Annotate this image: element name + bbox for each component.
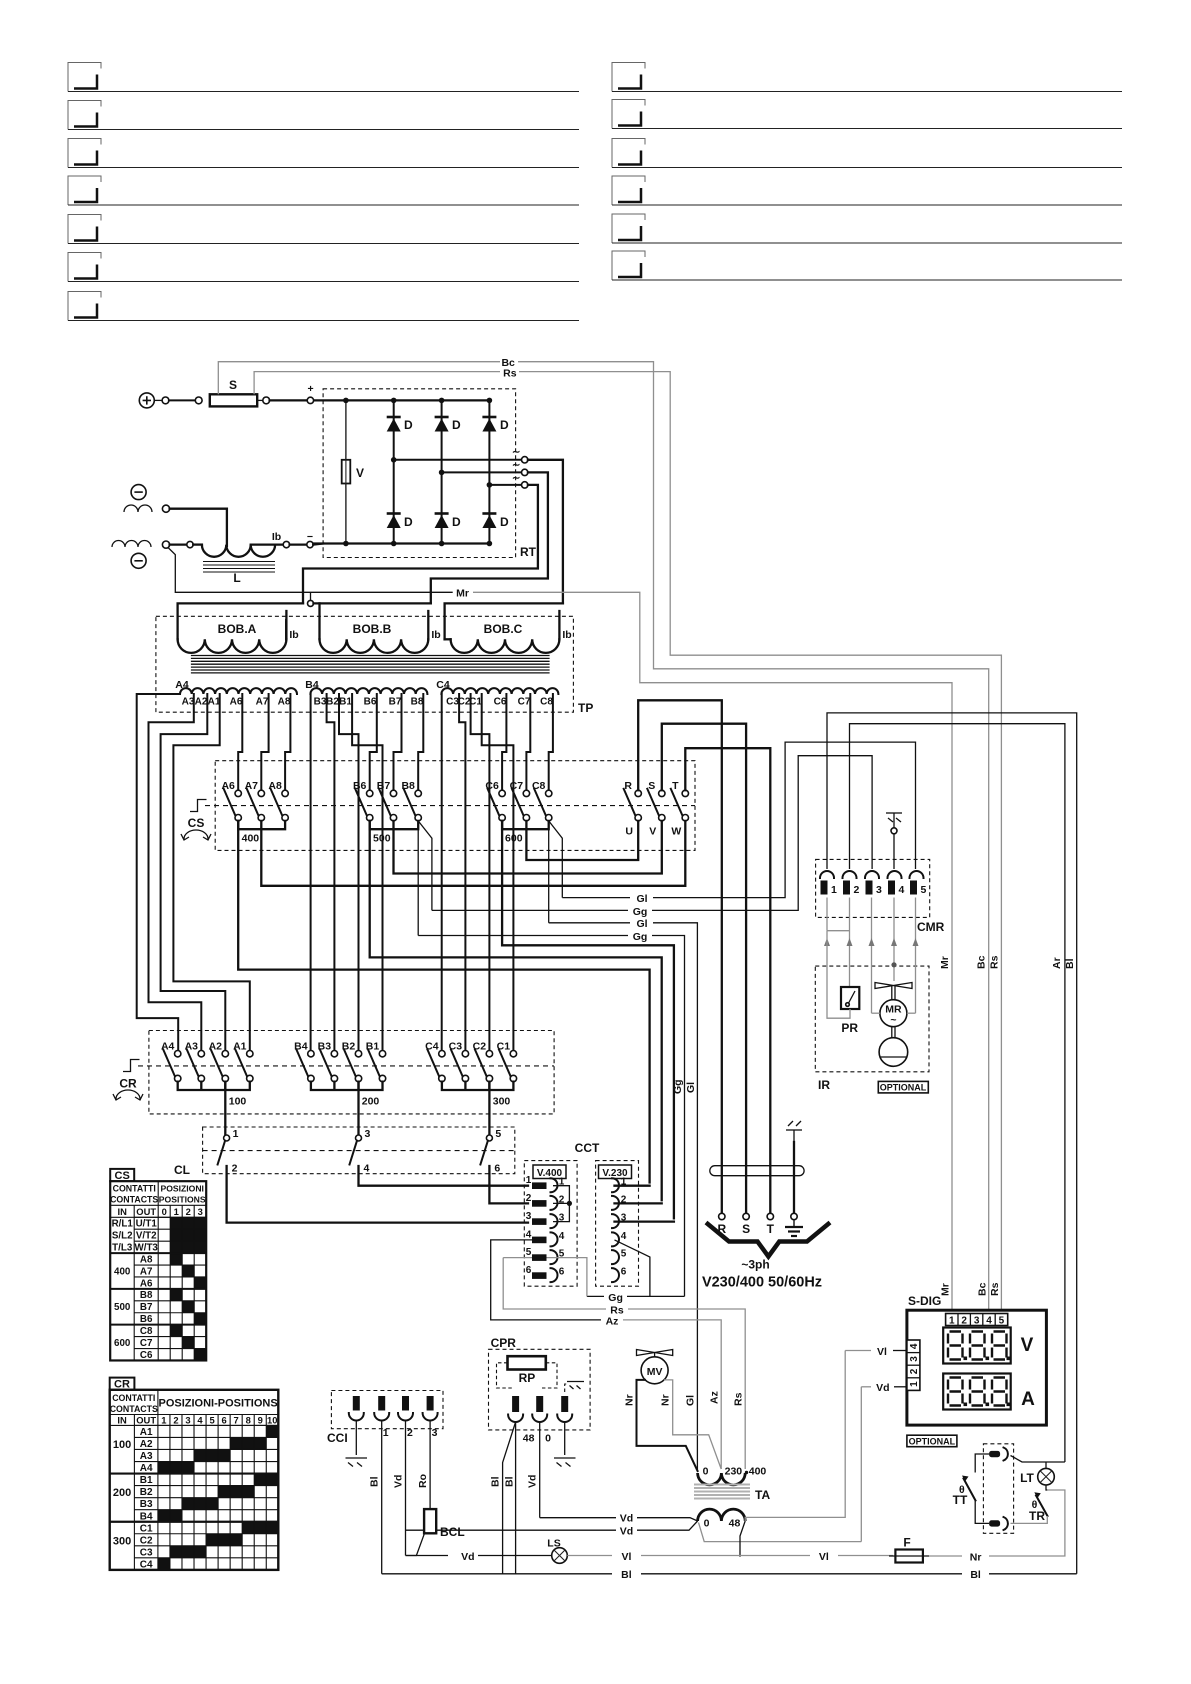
OPTIONAL box bbox=[878, 1081, 928, 1093]
wire A6 output to V.230 pin1 bbox=[238, 821, 649, 1183]
wire V400 pin4 to Az to TA 230 bbox=[491, 1240, 601, 1320]
wire ~1 bbox=[394, 459, 522, 461]
svg-text:Bl: Bl bbox=[1064, 958, 1076, 969]
svg-text:Vd: Vd bbox=[876, 1382, 889, 1394]
node bbox=[162, 541, 169, 548]
svg-text:Mr: Mr bbox=[940, 1283, 952, 1296]
svg-text:R: R bbox=[624, 780, 632, 792]
wire Bc sense bbox=[218, 362, 500, 395]
wire BCL bottom slant bbox=[406, 1533, 425, 1555]
legend line bbox=[68, 292, 101, 321]
svg-text:Bl: Bl bbox=[621, 1569, 632, 1581]
bracket 600 group bbox=[502, 821, 549, 829]
diode D top row 3 bbox=[482, 417, 509, 432]
primary coil BOB.A bbox=[178, 603, 303, 653]
CCI pin 2 bbox=[374, 1396, 389, 1439]
svg-text:C8: C8 bbox=[140, 1326, 153, 1337]
svg-text:A1: A1 bbox=[140, 1427, 153, 1438]
TP dashed box bbox=[156, 616, 574, 712]
svg-text:RT: RT bbox=[520, 545, 537, 559]
CPR pin 3 bbox=[557, 1396, 572, 1422]
svg-text:+: + bbox=[308, 383, 314, 395]
svg-text:CL: CL bbox=[174, 1163, 190, 1177]
svg-text:5: 5 bbox=[526, 1247, 532, 1258]
wire CR 200 output to CL 3 bbox=[357, 1082, 359, 1135]
svg-text:4: 4 bbox=[909, 1343, 920, 1349]
svg-text:∼: ∼ bbox=[512, 473, 520, 484]
svg-text:B7: B7 bbox=[140, 1302, 153, 1313]
wires pins3/5 to MR bbox=[872, 1012, 880, 1014]
legend line bbox=[68, 215, 101, 244]
wire C8 tap slant to Gl line bbox=[549, 821, 563, 898]
secondary winding group C bbox=[441, 688, 558, 694]
svg-text:Az: Az bbox=[606, 1315, 619, 1327]
wire V230 pin3 stub bbox=[615, 1220, 674, 1222]
V230 pin 3 bbox=[612, 1214, 619, 1228]
svg-text:6: 6 bbox=[559, 1267, 565, 1278]
svg-text:B2: B2 bbox=[326, 697, 339, 708]
svg-text:POSITIONS: POSITIONS bbox=[159, 1195, 206, 1205]
svg-text:CONTATTI: CONTATTI bbox=[113, 1184, 156, 1194]
svg-text:T: T bbox=[672, 780, 679, 792]
switch TT bbox=[964, 1479, 976, 1501]
svg-text:Nr: Nr bbox=[660, 1394, 672, 1406]
legend line bbox=[612, 176, 645, 205]
7-segment display V bbox=[943, 1328, 1011, 1364]
node ~ terminals bbox=[522, 457, 528, 463]
svg-text:1: 1 bbox=[383, 1427, 389, 1439]
wire B8 tap slant to Gg line bbox=[418, 821, 432, 911]
svg-text:4: 4 bbox=[559, 1231, 565, 1242]
svg-text:B8: B8 bbox=[411, 697, 424, 708]
svg-text:IR: IR bbox=[818, 1078, 830, 1092]
wire Gl to CMR pin5 bbox=[562, 897, 630, 899]
wire tap A8 bbox=[285, 694, 290, 790]
coil glyph 2-arc bbox=[124, 505, 152, 512]
svg-text:S: S bbox=[742, 1222, 750, 1236]
svg-text:600: 600 bbox=[505, 833, 523, 845]
ground mini in CPR bbox=[567, 1382, 584, 1390]
node supply S bbox=[743, 1213, 749, 1219]
bracket 300 group bbox=[442, 1082, 514, 1090]
V.400 connector bbox=[524, 1161, 577, 1287]
svg-text:Ib: Ib bbox=[272, 531, 281, 543]
terminal minus upper bbox=[131, 485, 146, 500]
wire Nr bbox=[929, 1555, 962, 1557]
wire R to mains bbox=[638, 700, 722, 1213]
svg-text:S: S bbox=[229, 378, 237, 392]
svg-text:BOB.C: BOB.C bbox=[484, 622, 523, 636]
dashed leads RP bbox=[497, 1363, 558, 1388]
svg-text:200: 200 bbox=[362, 1096, 380, 1108]
svg-text:D: D bbox=[404, 515, 413, 529]
svg-text:F: F bbox=[903, 1536, 910, 1550]
svg-text:A2: A2 bbox=[195, 697, 208, 708]
svg-text:Gg: Gg bbox=[672, 1079, 684, 1094]
wire Ib bbox=[251, 543, 283, 545]
wire CMR pin1 to Bl riser bbox=[827, 713, 1077, 1574]
diode D top row 1 bbox=[387, 417, 413, 432]
wire tap B7 bbox=[394, 694, 402, 790]
left pin strip 4321 bbox=[907, 1340, 920, 1390]
wire V230 pin2 stub bbox=[615, 1202, 662, 1204]
legend line bbox=[68, 253, 101, 282]
wire tap A1 bbox=[173, 694, 249, 1051]
svg-text:100: 100 bbox=[113, 1439, 131, 1451]
wire Rs sense bbox=[254, 372, 500, 395]
diode D bottom row 3 bbox=[482, 514, 509, 530]
svg-text:V230/400 50/60Hz: V230/400 50/60Hz bbox=[702, 1275, 822, 1291]
wire V230 pin1 stub bbox=[615, 1185, 650, 1187]
wire CCI Ro riser bbox=[429, 1421, 431, 1510]
terminal minus lower bbox=[131, 553, 146, 568]
svg-text:D: D bbox=[500, 418, 509, 432]
wire CPR pin3 to ground bbox=[564, 1422, 566, 1455]
svg-text:B3: B3 bbox=[140, 1499, 153, 1510]
legend line bbox=[68, 63, 101, 92]
secondary winding group B bbox=[310, 688, 427, 694]
wire V400 pin5 gray link bbox=[503, 1257, 532, 1259]
wire tap A3 bbox=[149, 694, 202, 1051]
wire ~2 to BOB.B feed bbox=[431, 472, 548, 603]
svg-text:LT: LT bbox=[1020, 1471, 1034, 1485]
wire tap B4 bbox=[310, 694, 312, 1051]
wire V to B7 output bbox=[394, 821, 662, 874]
wire Gg line CCT bbox=[587, 1295, 604, 1297]
legend line bbox=[612, 100, 645, 129]
svg-text:3: 3 bbox=[365, 1128, 371, 1140]
top pin strip 1-5 bbox=[946, 1314, 1008, 1327]
primary coil BOB.B bbox=[314, 603, 441, 653]
svg-text:100: 100 bbox=[229, 1096, 247, 1108]
svg-text:Rs: Rs bbox=[733, 1392, 745, 1406]
wire tap A6 bbox=[238, 694, 242, 790]
earth symbol above 4th pole bbox=[786, 1121, 802, 1142]
wire CL2 to V400 pin3 bbox=[227, 1166, 528, 1223]
svg-text:1: 1 bbox=[831, 884, 837, 896]
svg-text:OPTIONAL: OPTIONAL bbox=[880, 1083, 927, 1093]
svg-text:0: 0 bbox=[162, 1206, 167, 1217]
wire tap A7 bbox=[261, 694, 268, 790]
7-segment display A bbox=[943, 1374, 1011, 1410]
svg-text:Rs: Rs bbox=[988, 955, 1000, 969]
switch TR bbox=[1046, 1485, 1047, 1490]
wire C6 output to V.230 pin3 bbox=[502, 821, 674, 1219]
svg-text:D: D bbox=[452, 418, 461, 432]
fan MV blades on MR bbox=[875, 983, 912, 1000]
coil glyph 3-arc lower bbox=[112, 541, 151, 548]
svg-text:C6: C6 bbox=[494, 697, 507, 708]
legend line bbox=[612, 214, 645, 243]
svg-text:W: W bbox=[671, 826, 681, 838]
supply brace bbox=[706, 1223, 830, 1257]
V230 pin 2 bbox=[612, 1196, 619, 1210]
wire tap C4 bbox=[441, 694, 443, 1051]
legend list left column bbox=[0, 0, 1, 1]
svg-text:−: − bbox=[307, 531, 313, 543]
gauge under MR bbox=[879, 1027, 908, 1067]
svg-text:U/T1: U/T1 bbox=[136, 1219, 158, 1230]
CCI pin 3 bbox=[398, 1396, 413, 1439]
contactor pole 5/6 bbox=[486, 1135, 492, 1141]
svg-text:4: 4 bbox=[621, 1231, 627, 1242]
wire bbox=[169, 399, 195, 401]
svg-text:C7: C7 bbox=[518, 697, 531, 708]
supply cable oval bbox=[710, 1166, 804, 1176]
wire ~3 bbox=[489, 484, 521, 486]
svg-text:Mr: Mr bbox=[456, 588, 469, 600]
svg-text:C8: C8 bbox=[540, 697, 553, 708]
svg-text:T: T bbox=[767, 1222, 775, 1236]
legend line bbox=[612, 251, 645, 280]
wire CCI pin1 to ground bbox=[355, 1421, 357, 1456]
svg-text:4: 4 bbox=[899, 884, 905, 896]
svg-text:B2: B2 bbox=[140, 1487, 153, 1498]
transformer core bbox=[191, 656, 550, 673]
svg-text:Ib: Ib bbox=[431, 629, 440, 641]
svg-text:5: 5 bbox=[621, 1249, 627, 1260]
V230 pin 1 bbox=[612, 1178, 619, 1192]
secondary winding group A bbox=[180, 688, 297, 694]
wire S to mains bbox=[662, 724, 746, 1214]
svg-text:Bc: Bc bbox=[976, 955, 988, 969]
wire CCI Bl riser bbox=[381, 1421, 383, 1574]
svg-text:B1: B1 bbox=[140, 1475, 153, 1486]
svg-text:IN: IN bbox=[118, 1206, 128, 1217]
CMR pin 5 bbox=[910, 871, 927, 896]
wire U to C7 output bbox=[526, 821, 638, 860]
svg-text:6: 6 bbox=[494, 1163, 500, 1175]
svg-text:LS: LS bbox=[547, 1538, 560, 1550]
svg-text:Vd: Vd bbox=[620, 1513, 633, 1525]
lamp LS bbox=[547, 1538, 567, 1564]
svg-text:B1: B1 bbox=[339, 697, 352, 708]
wire Vd to LS bbox=[406, 1555, 449, 1557]
svg-text:500: 500 bbox=[373, 833, 391, 845]
svg-text:CS: CS bbox=[188, 816, 205, 830]
wire tap C2 bbox=[471, 694, 490, 1051]
wire Vl into pin4 bbox=[845, 1350, 871, 1352]
svg-text:6: 6 bbox=[222, 1415, 227, 1426]
svg-text:CONTACTS: CONTACTS bbox=[110, 1404, 158, 1414]
svg-text:Gg: Gg bbox=[633, 931, 648, 943]
svg-text:CCT: CCT bbox=[575, 1141, 600, 1155]
diode D bottom row 2 bbox=[435, 514, 461, 530]
wire Rs to TA 400 bbox=[503, 1258, 606, 1309]
svg-text:Gg: Gg bbox=[633, 906, 648, 918]
bracket 100 group bbox=[178, 1082, 250, 1090]
svg-text:8: 8 bbox=[246, 1415, 251, 1426]
V230 pin 4 bbox=[612, 1232, 619, 1246]
V400 bridge pins 1-3 bbox=[553, 1186, 569, 1222]
svg-text:C4: C4 bbox=[436, 679, 450, 691]
legend line bbox=[68, 101, 101, 130]
CMR pin 4 bbox=[888, 871, 905, 896]
terminal + bbox=[139, 393, 154, 408]
CCI pin 4 bbox=[423, 1396, 438, 1439]
wire ~2 bbox=[442, 471, 522, 473]
V.230 connector bbox=[596, 1161, 639, 1287]
shunt S bbox=[210, 394, 257, 406]
svg-text:A1: A1 bbox=[208, 697, 221, 708]
svg-text:Ib: Ib bbox=[289, 629, 298, 641]
svg-text:5: 5 bbox=[209, 1415, 214, 1426]
svg-text:Vl: Vl bbox=[877, 1346, 887, 1358]
svg-text:1: 1 bbox=[909, 1381, 920, 1387]
wire C8 tap straight to Gl line 2 bbox=[548, 821, 550, 923]
svg-text:OUT: OUT bbox=[136, 1415, 156, 1426]
svg-text:A6: A6 bbox=[140, 1278, 153, 1289]
svg-text:6: 6 bbox=[621, 1267, 627, 1278]
CPR pin 0 bbox=[532, 1396, 551, 1445]
wire top contact to TT bbox=[975, 1454, 989, 1473]
svg-text:4: 4 bbox=[526, 1229, 532, 1240]
svg-text:Rs: Rs bbox=[989, 1282, 1001, 1296]
svg-text:Vd: Vd bbox=[527, 1475, 539, 1488]
svg-text:Ro: Ro bbox=[417, 1474, 429, 1488]
svg-text:Mr: Mr bbox=[939, 956, 951, 969]
wire CPR 0 Vd riser bbox=[539, 1422, 541, 1518]
svg-text:D: D bbox=[500, 515, 509, 529]
primary arcs bbox=[698, 1473, 746, 1485]
svg-text:Vd: Vd bbox=[461, 1551, 474, 1563]
svg-text:1: 1 bbox=[949, 1315, 955, 1326]
svg-text:400: 400 bbox=[114, 1266, 131, 1277]
svg-text:C1: C1 bbox=[140, 1523, 153, 1534]
wire to L bbox=[170, 543, 187, 545]
svg-text:3: 3 bbox=[432, 1427, 438, 1439]
svg-text:3: 3 bbox=[526, 1211, 532, 1222]
svg-text:A8: A8 bbox=[278, 697, 291, 708]
wire bbox=[257, 399, 263, 401]
svg-text:Bl: Bl bbox=[970, 1569, 981, 1581]
wire TA sec 48 drop to Vl line bbox=[740, 1521, 745, 1557]
legend line bbox=[68, 139, 101, 168]
wire ~1 to BOB.C feed bbox=[528, 460, 563, 604]
thermal contact bottom bbox=[989, 1517, 1008, 1530]
wire upper terminal to L tap bbox=[170, 509, 227, 546]
svg-text:MV: MV bbox=[647, 1366, 663, 1378]
wire CL4 to V400 pin1 bbox=[359, 1166, 529, 1186]
svg-text:300: 300 bbox=[113, 1535, 131, 1547]
svg-text:Gl: Gl bbox=[636, 893, 647, 905]
legend line bbox=[612, 139, 645, 168]
resistor BCL bbox=[424, 1509, 436, 1533]
wire tap C8 bbox=[549, 694, 553, 790]
diode D bottom row 1 bbox=[387, 514, 413, 530]
wire Gg to CMR pin3 bbox=[432, 909, 628, 911]
wire tap B1 bbox=[352, 694, 382, 1051]
svg-text:2: 2 bbox=[232, 1163, 238, 1175]
RT dashed box bbox=[323, 389, 515, 558]
wire Vd riser to S-DIG bbox=[860, 1387, 862, 1542]
svg-text:D: D bbox=[452, 515, 461, 529]
svg-text:4: 4 bbox=[197, 1415, 203, 1426]
svg-text:B6: B6 bbox=[140, 1314, 153, 1325]
svg-text:B3: B3 bbox=[314, 697, 327, 708]
svg-text:1: 1 bbox=[174, 1206, 179, 1217]
contactor pole 3/4 bbox=[356, 1135, 362, 1141]
wire Mr from lower terminal bbox=[168, 548, 453, 593]
wire tap B2 bbox=[339, 694, 359, 1051]
ground CCI bbox=[346, 1458, 368, 1467]
svg-text:CONTATTI: CONTATTI bbox=[112, 1393, 155, 1403]
wire Vl line bbox=[567, 1555, 612, 1557]
svg-text:OPTIONAL: OPTIONAL bbox=[909, 1436, 956, 1446]
svg-text:∼: ∼ bbox=[512, 447, 520, 458]
svg-text:500: 500 bbox=[114, 1302, 131, 1313]
svg-text:A7: A7 bbox=[140, 1266, 153, 1277]
diode legs verticals bbox=[393, 400, 395, 459]
svg-text:CONTACTS: CONTACTS bbox=[110, 1195, 158, 1205]
svg-text:L: L bbox=[233, 571, 240, 585]
wire MV left Nr to TA 0 bbox=[637, 1380, 698, 1471]
svg-text:A8: A8 bbox=[140, 1254, 153, 1265]
svg-text:6: 6 bbox=[526, 1265, 532, 1276]
svg-text:0: 0 bbox=[545, 1433, 551, 1445]
node bbox=[162, 505, 169, 512]
svg-text:Ib: Ib bbox=[562, 629, 571, 641]
svg-text:Gl: Gl bbox=[685, 1082, 697, 1093]
wire TA sec 0 to Vd lines bbox=[637, 1521, 698, 1530]
svg-text:Bl: Bl bbox=[369, 1476, 381, 1487]
wire Mr gray run to right side bbox=[473, 592, 952, 1313]
svg-text:Bl: Bl bbox=[490, 1476, 502, 1487]
svg-text:2: 2 bbox=[909, 1368, 920, 1374]
svg-text:OUT: OUT bbox=[136, 1206, 156, 1217]
CPR pin 48 bbox=[508, 1396, 534, 1445]
svg-text:BOB.A: BOB.A bbox=[218, 622, 257, 636]
svg-text:1: 1 bbox=[233, 1128, 239, 1140]
wire MV right Nr to TA 230 bbox=[664, 1380, 721, 1469]
wire Gg 2 to CCT area bbox=[418, 935, 628, 937]
svg-text:3: 3 bbox=[185, 1415, 190, 1426]
svg-text:B7: B7 bbox=[389, 697, 402, 708]
svg-text:CR: CR bbox=[119, 1077, 137, 1091]
svg-text:1: 1 bbox=[161, 1415, 166, 1426]
svg-text:5: 5 bbox=[921, 884, 927, 896]
junction dots on + bus bbox=[343, 398, 349, 404]
svg-text:48: 48 bbox=[729, 1518, 741, 1530]
thermal contact top bbox=[989, 1448, 1008, 1461]
svg-text:A3: A3 bbox=[140, 1451, 153, 1462]
svg-text:TA: TA bbox=[755, 1488, 770, 1502]
motor MR bbox=[880, 1000, 907, 1027]
wires CMR pins down to IR with arrows bbox=[827, 898, 916, 1014]
svg-text:S/L2: S/L2 bbox=[112, 1231, 133, 1242]
svg-text:Rs: Rs bbox=[503, 367, 517, 379]
svg-text:CMR: CMR bbox=[917, 920, 945, 934]
svg-text:CPR: CPR bbox=[491, 1336, 517, 1350]
svg-text:BCL: BCL bbox=[440, 1525, 465, 1539]
svg-text:IN: IN bbox=[117, 1415, 127, 1426]
secondary arcs bbox=[698, 1509, 746, 1521]
svg-text:Ar: Ar bbox=[1051, 957, 1063, 969]
svg-text:0: 0 bbox=[703, 1466, 709, 1478]
wire bbox=[154, 399, 162, 401]
node supply PE bbox=[791, 1213, 797, 1219]
wire tap C3 bbox=[459, 694, 465, 1051]
wire CL6 to V400 pin2 bbox=[489, 1166, 528, 1203]
svg-text:V: V bbox=[649, 826, 656, 838]
inductor L bbox=[202, 545, 275, 557]
wire tap A2 bbox=[161, 694, 226, 1051]
svg-text:Vd: Vd bbox=[393, 1475, 405, 1488]
wire V230 pin4 to Gg bbox=[615, 1240, 650, 1297]
wire tap B6 bbox=[370, 694, 377, 790]
wire W to A7 output bbox=[261, 821, 685, 886]
varistor V bbox=[345, 400, 347, 543]
